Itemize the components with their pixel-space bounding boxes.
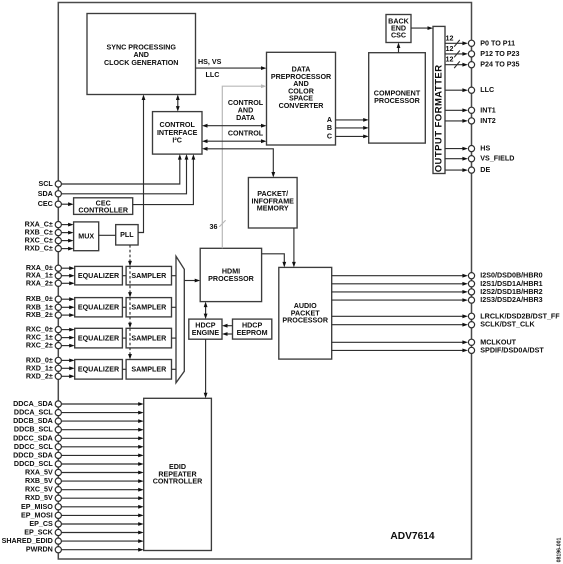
pin I2S2/DSD1B/HBR2 [332,288,543,296]
svg-text:SCLK/DST_CLK: SCLK/DST_CLK [480,321,535,329]
pin RXD_5V [25,494,144,502]
svg-text:DDCB_SDA: DDCB_SDA [13,417,53,425]
svg-text:SAMPLER: SAMPLER [131,304,167,312]
svg-text:CONTROL: CONTROL [228,129,264,137]
control interface I2C block [153,112,203,155]
pin RXD_C± [25,245,74,253]
svg-text:08196-001: 08196-001 [557,537,563,562]
svg-text:EQUALIZER: EQUALIZER [78,366,120,374]
HDCP engine block [189,319,222,339]
wire dashed clock through sampler A to sampler B [128,266,132,297]
pin DDCC_SCL [14,443,144,451]
svg-text:DATA: DATA [236,114,255,122]
pin RXD_1± [26,364,75,372]
wire equalizer A to sampler A [122,275,126,277]
pin VS_FIELD [445,155,514,163]
svg-text:RXD_0±: RXD_0± [26,356,53,364]
pin SHARED_EDID [2,537,144,545]
svg-text:RXC_5V: RXC_5V [25,486,53,494]
wire mux trapezoid to HDMI processor [184,279,200,283]
svg-text:LLC: LLC [480,86,494,94]
svg-text:DDCA_SCL: DDCA_SCL [14,409,54,417]
svg-text:DDCD_SDA: DDCD_SDA [13,451,53,459]
svg-text:HS, VS: HS, VS [198,58,222,66]
pin DDCA_SDA [13,400,144,408]
svg-text:12: 12 [446,56,454,64]
svg-text:CONTROLLER: CONTROLLER [78,207,128,215]
pin SDA [38,154,189,198]
pin P12 TO P23 [445,45,519,58]
svg-text:36: 36 [210,223,218,231]
pin RXA_0± [26,264,75,272]
svg-text:ENGINE: ENGINE [192,329,220,337]
svg-text:P24 TO P35: P24 TO P35 [480,61,519,69]
svg-text:CONVERTER: CONVERTER [279,102,325,110]
pin EP_MISO [21,503,144,511]
pin INT1 [445,106,496,114]
pin DDCB_SDA [13,417,144,425]
svg-text:PROCESSOR: PROCESSOR [208,275,254,283]
svg-text:RXA_2±: RXA_2± [26,279,53,287]
equalizer C block [75,328,123,348]
pin I2S0/DSD0B/HBR0 [332,272,543,280]
pin INT2 [445,117,496,125]
wire HDMI processor <-> HDCP engine (bidirectional) [204,302,208,320]
pin EP_MOSI [21,511,144,519]
svg-text:MUX: MUX [78,233,94,241]
pin RXC_2± [26,342,75,350]
svg-text:SAMPLER: SAMPLER [131,272,167,280]
pin LRCLK/DSD2B/DST_FF [332,312,561,320]
svg-text:DDCC_SDA: DDCC_SDA [13,434,53,442]
wire sync <-> control interface (bidirectional) [176,95,180,112]
svg-text:RXC_2±: RXC_2± [26,342,53,350]
pin SCL [39,154,182,188]
svg-text:PROCESSOR: PROCESSOR [282,317,328,325]
svg-text:PLL: PLL [120,231,134,239]
back end CSC block [386,15,411,43]
wire control interface to packet/infoframe memory [202,147,275,178]
svg-text:DDCB_SCL: DDCB_SCL [14,426,54,434]
wire sampler D to mux trapezoid [172,368,177,370]
svg-text:EP_SCK: EP_SCK [24,529,53,537]
svg-text:I2S1/DSD1A/HBR1: I2S1/DSD1A/HBR1 [480,280,542,288]
svg-text:I2S0/DSD0B/HBR0: I2S0/DSD0B/HBR0 [480,272,542,280]
svg-text:SDA: SDA [38,190,53,198]
wire back end CSC to output formatter [411,26,433,30]
pin RXB_5V [25,477,144,485]
equalizer D block [75,360,123,380]
pin MCLKOUT [332,338,517,346]
sampler B block [126,298,171,317]
svg-text:RXD_5V: RXD_5V [25,494,53,502]
EDID repeater controller block [144,398,212,550]
svg-text:INT1: INT1 [480,106,496,114]
pin DE [445,166,490,174]
svg-text:SAMPLER: SAMPLER [131,334,167,342]
pin RXB_0± [26,295,75,303]
svg-text:DDCD_SCL: DDCD_SCL [14,460,54,468]
svg-text:EQUALIZER: EQUALIZER [78,272,120,280]
svg-text:VS_FIELD: VS_FIELD [480,155,514,163]
wire HDCP EEPROM to HDCP engine lower [222,332,233,336]
pin RXB_1± [26,303,75,311]
wire equalizer D to sampler D [122,368,126,370]
svg-text:ADV7614: ADV7614 [390,531,435,542]
pin DDCD_SCL [14,460,144,468]
svg-text:SCL: SCL [39,180,54,188]
wire equalizer C to sampler C [122,337,126,339]
svg-text:MCLKOUT: MCLKOUT [480,338,516,346]
svg-text:C: C [327,132,332,140]
pin RXB_C± [25,229,74,237]
pin DDCB_SCL [14,426,144,434]
svg-text:I²C: I²C [172,137,182,145]
svg-text:EP_MOSI: EP_MOSI [21,511,53,519]
wire sampler C to mux trapezoid [172,337,177,339]
svg-text:CSC: CSC [391,32,406,40]
svg-text:RXB_0±: RXB_0± [26,295,53,303]
pin I2S3/DSD2A/HBR3 [332,296,543,304]
svg-text:RXD_2±: RXD_2± [26,372,53,380]
pin I2S1/DSD1A/HBR1 [332,280,543,288]
svg-text:B: B [327,124,332,132]
equalizer A block [75,266,123,285]
wire B data preprocessor to component processor [336,126,369,130]
PLL block [116,225,138,245]
output formatter block [433,26,445,173]
svg-text:OUTPUT FORMATTER: OUTPUT FORMATTER [433,64,444,172]
pin DDCA_SCL [14,409,144,417]
pin SPDIF/DSD0A/DST [332,346,545,354]
pin HS [445,145,490,153]
sampler C block [126,328,171,348]
pin RXA_1± [26,272,75,280]
svg-text:EEPROM: EEPROM [237,329,268,337]
svg-text:A: A [327,116,332,124]
wire control bus (bidirectional) [202,129,267,143]
audio packet processor block [279,267,332,359]
wire equalizer B to sampler B [122,306,126,308]
pin RXB_2± [26,311,75,319]
wire HDMI processor to audio packet processor [262,254,287,268]
pin RXC_5V [25,486,144,494]
pin RXD_0± [26,356,75,364]
svg-text:CEC: CEC [38,200,53,208]
sampler D block [126,360,171,380]
pin RXA_5V [25,469,144,477]
svg-text:DE: DE [480,166,490,174]
svg-text:RXB_1±: RXB_1± [26,303,53,311]
svg-text:SPDIF/DSD0A/DST: SPDIF/DSD0A/DST [480,346,544,354]
pin RXA_C± [25,221,74,229]
svg-text:RXB_2±: RXB_2± [26,311,53,319]
svg-text:RXA_C±: RXA_C± [25,221,53,229]
svg-text:I2S2/DSD1B/HBR2: I2S2/DSD1B/HBR2 [480,288,542,296]
pin P24 TO P35 [445,56,519,69]
pin RXC_1± [26,334,75,342]
pin RXC_0± [26,326,75,334]
wire dashed PLL clock to sampler A [128,245,132,266]
packet / infoframe memory block [248,178,297,229]
svg-text:RXB_C±: RXB_C± [25,229,53,237]
svg-text:EQUALIZER: EQUALIZER [78,304,120,312]
wire HDCP engine to EDID repeater controller [204,339,208,398]
equalizer B block [75,298,123,317]
pin PWRDN [26,546,144,554]
MUX block [74,222,99,251]
pin RXA_2± [26,279,75,287]
svg-text:RXC_C±: RXC_C± [25,237,53,245]
svg-text:RXC_1±: RXC_1± [26,334,53,342]
pin DDCC_SDA [13,434,144,442]
wire dashed clock through sampler C to sampler D [128,328,132,359]
svg-text:EP_MISO: EP_MISO [21,503,53,511]
outer chip boundary box [58,3,471,560]
svg-text:RXD_C±: RXD_C± [25,245,53,253]
pin SCLK/DST_CLK [332,321,536,329]
wire MUX to PLL [99,234,116,236]
wire gray 36-bit HDMI processor to data preprocessor [210,84,267,248]
svg-text:EP_CS: EP_CS [29,520,53,528]
svg-text:I2S3/DSD2A/HBR3: I2S3/DSD2A/HBR3 [480,296,542,304]
HDCP EEPROM block [233,319,272,339]
pin P0 TO P11 [445,34,515,47]
wire packet/infoframe memory to audio packet processor [292,228,296,267]
component processor block [369,53,426,143]
pin RXD_2± [26,372,75,380]
svg-text:PROCESSOR: PROCESSOR [374,97,420,105]
svg-text:DDCA_SDA: DDCA_SDA [13,400,53,408]
svg-text:DDCC_SCL: DDCC_SCL [14,443,54,451]
svg-text:SAMPLER: SAMPLER [131,366,167,374]
pin RXC_C± [25,237,74,245]
svg-text:LRCLK/DSD2B/DST_FF: LRCLK/DSD2B/DST_FF [480,312,560,320]
wire CEC controller to control interface [133,154,196,205]
wire HS,VS LLC sync to data preprocessor [196,58,267,79]
svg-text:RXD_1±: RXD_1± [26,364,53,372]
wire dashed clock through sampler B to sampler C [128,298,132,329]
svg-text:P12 TO P23: P12 TO P23 [480,50,519,58]
CEC controller block [74,198,133,215]
svg-text:PWRDN: PWRDN [26,546,53,554]
pin CEC [38,200,74,208]
pin EP_SCK [24,529,143,537]
wire control and data bus (bidirectional) [202,99,267,128]
svg-text:INT2: INT2 [480,117,496,125]
svg-text:RXC_0±: RXC_0± [26,326,53,334]
svg-text:CONTROLLER: CONTROLLER [153,478,203,486]
svg-text:RXB_5V: RXB_5V [25,477,53,485]
svg-text:RXA_5V: RXA_5V [25,469,53,477]
svg-text:CLOCK GENERATION: CLOCK GENERATION [104,59,178,67]
wire sampler A to mux trapezoid [172,275,177,277]
wire sampler B to mux trapezoid [172,306,177,308]
svg-text:12: 12 [446,34,454,42]
HDMI processor block [200,248,261,301]
sync processing and clock generation block [87,14,196,95]
wire A data preprocessor to component processor [336,118,369,122]
svg-text:P0 TO P11: P0 TO P11 [480,39,515,47]
data preprocessor and color space converter block [267,52,336,145]
svg-text:EQUALIZER: EQUALIZER [78,334,120,342]
pin LLC [445,86,494,94]
svg-text:MEMORY: MEMORY [257,205,289,213]
wire component processor to back end CSC [397,43,401,53]
svg-text:HS: HS [480,145,490,153]
wire HDCP EEPROM to HDCP engine upper [222,324,233,328]
pin DDCD_SDA [13,451,144,459]
TMDS channel mux trapezoid [176,256,184,383]
svg-text:12: 12 [446,45,454,53]
svg-text:SHARED_EDID: SHARED_EDID [2,537,53,545]
svg-text:LLC: LLC [206,71,220,79]
wire PLL to sync processing clock [138,95,145,233]
wire C data preprocessor to component processor [336,135,369,139]
sampler A block [126,266,171,285]
pin EP_CS [29,520,143,528]
